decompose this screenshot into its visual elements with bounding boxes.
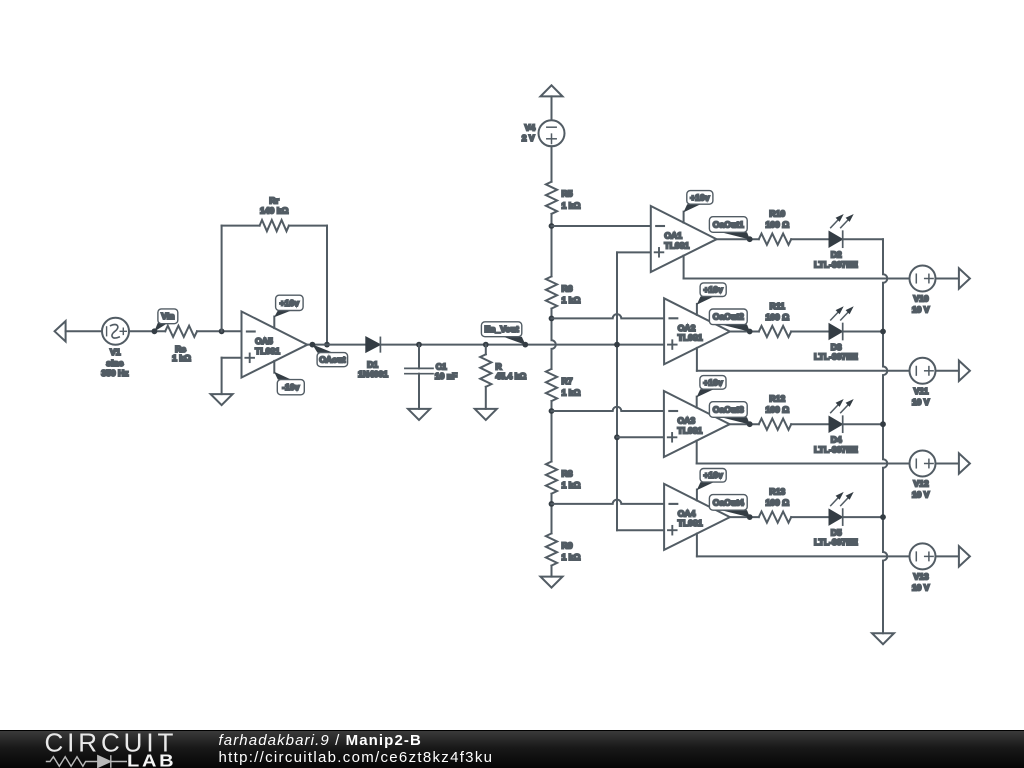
wire R6 to R7 (hop over En_Vout) xyxy=(552,309,556,369)
svg-text:45.4 kΩ: 45.4 kΩ xyxy=(496,371,527,381)
footer bar xyxy=(0,730,1024,768)
node OaOut2 flag xyxy=(709,309,752,334)
wire R10 to LED xyxy=(791,238,829,240)
op-amp OA4 xyxy=(664,484,730,550)
svg-text:R7: R7 xyxy=(562,376,573,386)
wire bus to OA1 plus xyxy=(617,251,651,253)
node D5 junction xyxy=(880,514,886,520)
wire R11 to LED xyxy=(791,331,829,333)
svg-text:1 kΩ: 1 kΩ xyxy=(562,552,581,562)
svg-text:R: R xyxy=(496,361,503,371)
svg-text:OA4: OA4 xyxy=(678,509,696,519)
svg-text:D3: D3 xyxy=(831,342,842,352)
svg-text:http://circuitlab.com/ce6zt8kz: http://circuitlab.com/ce6zt8kz4f3ku xyxy=(219,749,494,766)
wire OA2 V- pin to V11 xyxy=(697,348,910,371)
wire R9 to ground xyxy=(551,566,553,577)
main output wire En_Vout row xyxy=(381,344,664,346)
svg-text:+10v: +10v xyxy=(703,377,723,387)
svg-text:1 kΩ: 1 kΩ xyxy=(562,388,581,398)
svg-text:R12: R12 xyxy=(769,394,785,404)
svg-text:1 kΩ: 1 kΩ xyxy=(172,353,191,363)
wire LED cathode rail vertical (hops over V rails) xyxy=(883,239,887,633)
svg-text:10 V: 10 V xyxy=(912,397,930,407)
wire to OA3 minus (hop over bus) xyxy=(552,407,664,411)
node junction Re/feedback xyxy=(219,328,225,334)
wire R12 to LED xyxy=(791,423,829,425)
ground C1 xyxy=(408,409,430,420)
flag +10v OA4 xyxy=(697,469,726,501)
svg-text:2 V: 2 V xyxy=(522,133,535,143)
svg-text:140 kΩ: 140 kΩ xyxy=(260,206,289,216)
wire bus to OA3 plus xyxy=(617,436,664,438)
wire OA3 V- pin to V12 xyxy=(697,441,910,464)
wire OA1 output xyxy=(717,238,759,240)
svg-text:R8: R8 xyxy=(562,468,573,478)
svg-text:TL081: TL081 xyxy=(678,425,703,435)
wire to OA1 minus xyxy=(552,225,651,227)
svg-text:OaOut4: OaOut4 xyxy=(713,497,744,507)
voltage source V11 10 V xyxy=(910,358,936,407)
voltage source V12 10 V xyxy=(910,451,936,500)
svg-text:+10v: +10v xyxy=(703,470,723,480)
flag +10v OA3 xyxy=(697,376,727,408)
wire V11 to port xyxy=(936,370,959,372)
node OaOut1 flag xyxy=(709,217,752,242)
node bus/En_Vout junction xyxy=(614,342,620,348)
wire LED D3 to cathode rail xyxy=(843,331,883,333)
op-amp OA5 xyxy=(242,312,308,378)
svg-text:350 Hz: 350 Hz xyxy=(101,368,128,378)
op-amp OA1 xyxy=(651,206,717,272)
svg-text:C1: C1 xyxy=(436,361,447,371)
wire LED D5 to cathode rail xyxy=(843,516,883,518)
voltage source V10 10 V xyxy=(910,266,936,315)
voltage source V4 xyxy=(522,120,565,146)
svg-text:LTL-307EE: LTL-307EE xyxy=(814,537,858,547)
flag -10v OA5 xyxy=(274,361,304,395)
node OAout flag xyxy=(310,342,348,367)
svg-text:LTL-307EE: LTL-307EE xyxy=(814,444,858,454)
svg-text:D1: D1 xyxy=(367,359,378,369)
flag +10v OA2 xyxy=(697,283,726,315)
wire to OA2 minus (hop over bus) xyxy=(552,314,665,318)
wire R5 to R6 xyxy=(551,214,553,277)
svg-text:1N4001: 1N4001 xyxy=(358,369,388,379)
svg-text:V10: V10 xyxy=(913,294,929,304)
svg-text:10 V: 10 V xyxy=(912,582,930,592)
resistor R 45.4k xyxy=(480,342,526,409)
LED D4 LTL-307EE xyxy=(814,399,858,454)
op-amp OA2 xyxy=(664,298,730,364)
resistor R11 xyxy=(759,301,791,337)
wire R7 to R8 xyxy=(551,401,553,461)
LED D5 LTL-307EE xyxy=(814,492,858,547)
resistor R9 xyxy=(546,533,581,565)
wire OA5 output xyxy=(307,344,366,346)
svg-text:R5: R5 xyxy=(562,189,573,199)
svg-text:R11: R11 xyxy=(770,301,786,311)
resistor R13 xyxy=(759,487,791,523)
svg-text:farhadakbari.9 / Manip2-B: farhadakbari.9 / Manip2-B xyxy=(219,732,422,749)
svg-text:LTL-307EE: LTL-307EE xyxy=(814,352,858,362)
svg-text:D4: D4 xyxy=(831,435,842,445)
wire OA1 V- pin to V10 xyxy=(684,256,910,279)
svg-text:+10v: +10v xyxy=(690,192,710,202)
port terminal top xyxy=(541,85,563,96)
wire R13 to LED xyxy=(791,516,829,518)
voltage source V13 10 V xyxy=(910,543,936,592)
resistor Rr xyxy=(260,196,289,232)
wire V12 to port xyxy=(936,463,959,465)
ground R xyxy=(475,409,497,420)
node chain junction 3 xyxy=(549,408,555,414)
node chain junction 1 xyxy=(549,223,555,229)
svg-text:TL081: TL081 xyxy=(678,333,703,343)
wire LED D2 to cathode rail xyxy=(843,238,883,240)
svg-text:V11: V11 xyxy=(914,386,929,396)
node OaOut4 flag xyxy=(709,495,752,520)
svg-text:10 nF: 10 nF xyxy=(435,371,457,381)
resistor Re xyxy=(165,326,197,364)
svg-text:D2: D2 xyxy=(831,250,842,260)
svg-text:100 Ω: 100 Ω xyxy=(765,312,789,322)
wire plus-input bus vertical xyxy=(616,252,618,530)
svg-text:V4: V4 xyxy=(525,123,536,133)
svg-text:R9: R9 xyxy=(562,540,573,550)
svg-text:-10v: -10v xyxy=(282,382,299,392)
svg-text:OaOut2: OaOut2 xyxy=(713,312,744,322)
node OaOut3 flag xyxy=(709,402,752,427)
flag +10v OA1 xyxy=(683,191,712,223)
wire Rr to output xyxy=(289,226,327,345)
wire V10 to port xyxy=(936,278,959,280)
resistor R5 xyxy=(546,182,581,214)
svg-text:OA3: OA3 xyxy=(678,416,696,426)
svg-text:R13: R13 xyxy=(769,487,785,497)
diode D1 xyxy=(358,337,388,379)
svg-text:100 Ω: 100 Ω xyxy=(765,405,789,415)
wire port to V1 xyxy=(66,330,102,332)
wire to OA4 minus (hop over bus) xyxy=(552,500,665,504)
svg-text:OAout: OAout xyxy=(319,355,345,365)
node En_Vout flag xyxy=(481,322,528,348)
footer title text xyxy=(219,732,494,766)
node D3 junction xyxy=(880,329,886,335)
svg-text:sine: sine xyxy=(106,358,123,368)
node chain junction 2 xyxy=(549,316,555,322)
op-amp OA3 xyxy=(664,391,730,457)
svg-text:En_Vout: En_Vout xyxy=(484,324,518,334)
node Vin flag xyxy=(152,309,178,334)
node bus/OA3 junction xyxy=(614,434,620,440)
resistor R12 xyxy=(759,394,791,430)
wire V4 to R5 xyxy=(551,146,553,181)
svg-text:D5: D5 xyxy=(831,527,842,537)
svg-text:10 V: 10 V xyxy=(912,305,930,315)
flag +10v OA5 xyxy=(274,295,303,328)
ground OA5 xyxy=(211,394,233,405)
svg-text:OA1: OA1 xyxy=(664,231,682,241)
ground cathode rail xyxy=(872,633,894,644)
LED D2 LTL-307EE xyxy=(814,214,858,269)
wire port to V4 xyxy=(551,96,553,120)
wire bus to OA4 plus xyxy=(617,529,664,531)
node feedback/output junction xyxy=(324,342,330,348)
svg-text:Vin: Vin xyxy=(161,311,174,321)
node D4 junction xyxy=(880,421,886,427)
node chain junction 4 xyxy=(549,501,555,507)
svg-text:OA5: OA5 xyxy=(255,336,273,346)
svg-text:V1: V1 xyxy=(110,347,121,357)
wire feedback up xyxy=(222,226,260,332)
output port terminal V12 xyxy=(959,453,970,473)
input port terminal xyxy=(55,321,66,341)
capacitor C1 xyxy=(405,342,457,409)
svg-text:Rr: Rr xyxy=(269,196,279,206)
ground chain xyxy=(541,577,563,588)
wire OA4 output xyxy=(730,516,759,518)
svg-text:OaOut1: OaOut1 xyxy=(713,219,744,229)
voltage source V1 sine xyxy=(101,318,129,378)
svg-text:OA2: OA2 xyxy=(678,323,696,333)
wire LED D4 to cathode rail xyxy=(843,423,883,425)
svg-text:+10v: +10v xyxy=(280,298,300,308)
resistor R7 xyxy=(546,369,581,401)
LED D3 LTL-307EE xyxy=(814,306,858,361)
svg-text:OaOut3: OaOut3 xyxy=(713,404,744,414)
svg-text:100 Ω: 100 Ω xyxy=(765,220,789,230)
wire OA5 plus input to ground xyxy=(222,358,242,394)
svg-text:100 Ω: 100 Ω xyxy=(765,497,789,507)
output port terminal V11 xyxy=(959,361,970,381)
output port terminal V10 xyxy=(959,268,970,288)
wire V13 to port xyxy=(936,555,959,557)
wire Re to op-amp xyxy=(197,330,242,332)
svg-text:1 kΩ: 1 kΩ xyxy=(562,480,581,490)
resistor R6 xyxy=(546,276,581,308)
svg-text:V12: V12 xyxy=(913,479,929,489)
svg-text:10 V: 10 V xyxy=(912,490,930,500)
output port terminal V13 xyxy=(959,546,970,566)
svg-text:V13: V13 xyxy=(913,572,929,582)
svg-text:TL081: TL081 xyxy=(255,346,280,356)
resistor R8 xyxy=(546,462,581,494)
svg-text:1 kΩ: 1 kΩ xyxy=(562,295,581,305)
svg-text:TL081: TL081 xyxy=(678,518,703,528)
svg-text:R6: R6 xyxy=(562,283,573,293)
wire R8 to R9 xyxy=(551,494,553,534)
CircuitLab logo xyxy=(45,728,178,768)
svg-text:R10: R10 xyxy=(769,209,785,219)
svg-text:1 kΩ: 1 kΩ xyxy=(562,200,581,210)
svg-text:LTL-307EE: LTL-307EE xyxy=(814,259,858,269)
svg-text:TL081: TL081 xyxy=(664,240,689,250)
wire V1 to Re xyxy=(129,330,165,332)
svg-text:LAB: LAB xyxy=(127,751,176,768)
wire OA4 V- pin to V13 xyxy=(697,534,910,557)
resistor R10 xyxy=(759,209,791,245)
wire OA3 output xyxy=(730,423,759,425)
wire OA2 output xyxy=(730,331,759,333)
svg-text:+10v: +10v xyxy=(703,285,723,295)
